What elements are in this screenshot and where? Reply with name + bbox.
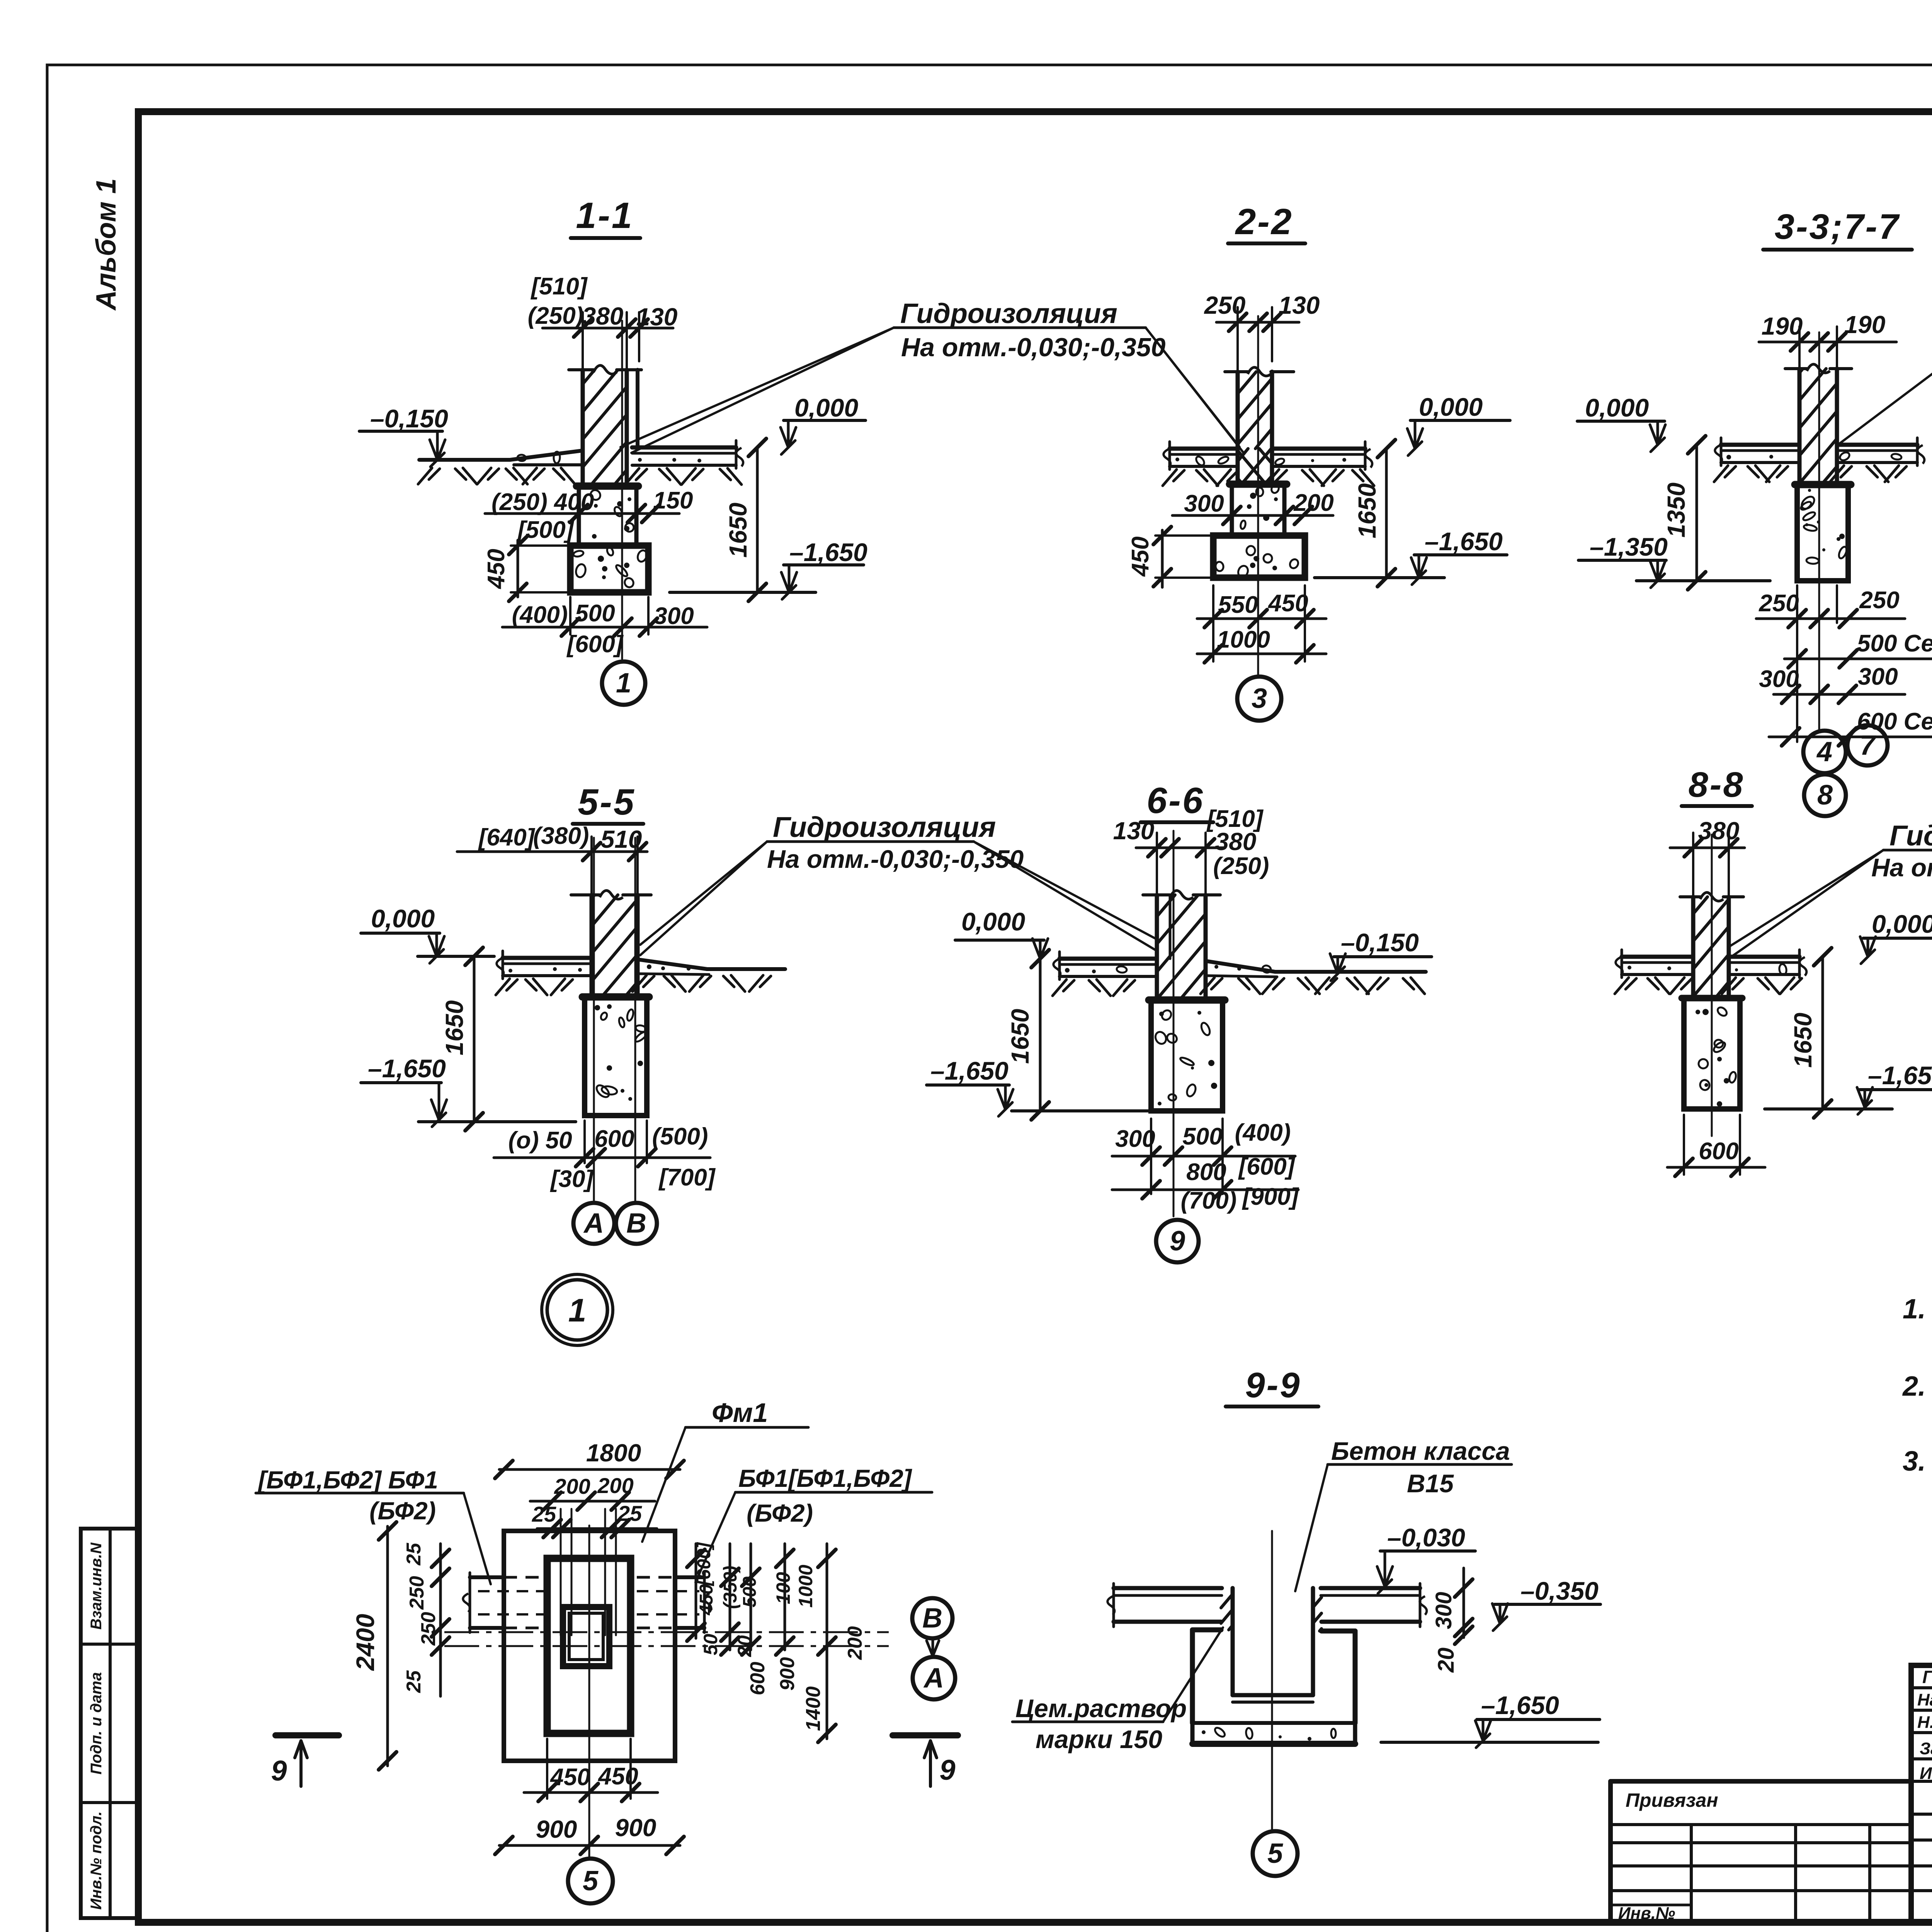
section 9-9 dim 300 vertical <box>1463 1568 1465 1638</box>
section 8-8 floor slab left <box>1622 955 1693 959</box>
section 1-1 foundation upper block <box>577 483 638 490</box>
section 5-5 outdoor ground right <box>638 959 707 969</box>
plan horizontal centerlines <box>444 1631 889 1633</box>
svg-text:[БФ1,БФ2] БФ1: [БФ1,БФ2] БФ1 <box>257 1466 438 1494</box>
svg-text:300: 300 <box>1184 490 1224 517</box>
section 3-3 wall axis <box>1818 332 1820 730</box>
svg-text:–1,650: –1,650 <box>368 1054 446 1083</box>
plan bottom dims 450 450 <box>546 1739 548 1799</box>
svg-text:[600]: [600] <box>1238 1153 1296 1180</box>
svg-text:(380): (380) <box>533 823 589 849</box>
section 8-8 brick wall <box>1680 895 1700 898</box>
svg-text:–0,150: –0,150 <box>1341 928 1419 957</box>
label gidroizolyaciya B leaders <box>1838 297 1932 444</box>
svg-text:450: 450 <box>696 1584 717 1616</box>
svg-text:(БФ2): (БФ2) <box>747 1499 813 1527</box>
svg-text:9-9: 9-9 <box>1245 1366 1301 1405</box>
svg-text:БФ1[БФ1,БФ2]: БФ1[БФ1,БФ2] <box>738 1464 913 1492</box>
svg-text:25: 25 <box>403 1670 425 1693</box>
section 1-1 dim 1650 vertical <box>756 447 759 592</box>
section 2-2 floor slab left <box>1170 447 1238 451</box>
svg-text:8-8: 8-8 <box>1689 765 1745 804</box>
svg-text:Привязан: Привязан <box>1626 1789 1718 1811</box>
svg-text:Гидроизоляция: Гидроизоляция <box>900 298 1117 329</box>
section 2-2 foundation upper block <box>1230 481 1287 488</box>
section 5-5 node circle 1 <box>542 1274 613 1345</box>
svg-text:Альбом 1: Альбом 1 <box>91 178 122 311</box>
section 8-8 wall axis <box>1711 835 1713 1136</box>
section 6-6 bottom dims <box>1150 1119 1152 1194</box>
section 9-9 axis <box>1271 1531 1273 1831</box>
svg-text:5: 5 <box>583 1866 599 1896</box>
plan dims 200 200 <box>530 1500 655 1503</box>
svg-text:250: 250 <box>1204 291 1246 319</box>
section 1-1 top dimension line <box>543 327 673 330</box>
plan axis circles B A right <box>912 1598 952 1638</box>
svg-text:Н.контр.: Н.контр. <box>1917 1713 1932 1732</box>
svg-text:Инв.№: Инв.№ <box>1618 1904 1675 1923</box>
section 2-2 wall axis <box>1257 316 1259 674</box>
section 8-8 dim 1650 vertical <box>1821 957 1824 1109</box>
plan vertical centerline <box>588 1526 590 1761</box>
section 1-1 bottom dims <box>569 597 571 634</box>
section 3-3 dims below <box>1796 585 1798 742</box>
section 1-1 floor slab right <box>632 446 736 450</box>
svg-text:20: 20 <box>734 1635 755 1657</box>
svg-text:В: В <box>626 1208 646 1239</box>
svg-text:1650: 1650 <box>1006 1009 1034 1064</box>
svg-text:[510]: [510] <box>531 273 588 300</box>
svg-text:600: 600 <box>594 1126 634 1152</box>
section 9-9 floor slab left <box>1114 1586 1222 1590</box>
svg-text:380: 380 <box>582 302 624 330</box>
svg-text:0,000: 0,000 <box>1585 393 1649 422</box>
svg-text:Зав.гр.: Зав.гр. <box>1920 1739 1932 1758</box>
svg-text:25: 25 <box>532 1502 556 1526</box>
svg-text:2. Размеры и наименования в кр: 2. Размеры и наименования в круглых скоб… <box>1902 1371 1932 1402</box>
svg-text:–1,650: –1,650 <box>1481 1691 1559 1719</box>
svg-text:250: 250 <box>1759 590 1799 617</box>
svg-text:9: 9 <box>271 1755 287 1787</box>
section 2-2 dim 450 vertical <box>1161 530 1164 587</box>
svg-text:–1,650: –1,650 <box>1425 527 1503 556</box>
svg-text:[900]: [900] <box>1242 1184 1299 1210</box>
section 1-1 outdoor ground left <box>419 458 510 462</box>
svg-text:300: 300 <box>1431 1592 1456 1629</box>
plan pedestal Fm1 outline <box>547 1558 631 1733</box>
svg-text:250: 250 <box>406 1576 428 1610</box>
svg-text:130: 130 <box>1113 817 1155 845</box>
svg-text:0,000: 0,000 <box>961 907 1025 936</box>
svg-text:380: 380 <box>1698 817 1740 845</box>
svg-text:300: 300 <box>1115 1126 1155 1152</box>
svg-text:0,000: 0,000 <box>371 904 435 933</box>
svg-text:450: 450 <box>549 1764 590 1791</box>
svg-text:марки 150: марки 150 <box>1036 1725 1162 1753</box>
svg-text:–1,650: –1,650 <box>930 1056 1009 1085</box>
svg-text:300: 300 <box>1858 663 1898 690</box>
svg-text:Гидроизоляция: Гидроизоляция <box>1889 820 1932 852</box>
section 8-8 foundation <box>1682 995 1742 1002</box>
svg-text:900: 900 <box>536 1815 577 1843</box>
svg-text:0,000: 0,000 <box>1419 393 1483 421</box>
section 5-5 foundation <box>582 993 649 1001</box>
section 1-1 foundation lower block <box>570 546 648 592</box>
svg-text:250: 250 <box>417 1612 440 1646</box>
svg-text:А: А <box>583 1208 604 1239</box>
section 9-9 mortar seams <box>1221 1595 1231 1608</box>
svg-text:1650: 1650 <box>440 1000 468 1055</box>
svg-text:9: 9 <box>939 1754 955 1786</box>
svg-text:(700): (700) <box>1181 1187 1237 1214</box>
section 3-3 dim 1350 vertical <box>1696 445 1698 581</box>
section 9-9 cup base strip <box>1192 1721 1355 1725</box>
svg-text:[700]: [700] <box>658 1164 716 1191</box>
svg-text:9: 9 <box>1170 1226 1185 1257</box>
section 3-3 floor slab left <box>1721 443 1799 447</box>
svg-text:450: 450 <box>1267 590 1308 617</box>
svg-text:500: 500 <box>740 1577 760 1607</box>
svg-text:190: 190 <box>1762 312 1803 340</box>
svg-text:(250): (250) <box>1213 853 1269 879</box>
svg-text:1000: 1000 <box>1217 626 1270 653</box>
section 5-5 floor slab left indoor <box>503 956 592 960</box>
svg-text:1650: 1650 <box>1353 483 1381 538</box>
svg-text:200: 200 <box>1293 490 1333 516</box>
svg-text:200: 200 <box>844 1626 866 1660</box>
svg-text:[30]: [30] <box>550 1166 594 1192</box>
section 6-6 top dimension <box>1136 847 1225 849</box>
section 6-6 wall axis <box>1173 831 1175 1216</box>
section 1-1 brick wall <box>569 368 594 371</box>
svg-text:Инв.№ подл.: Инв.№ подл. <box>88 1811 105 1910</box>
section 5-5 dim 1650 vertical <box>473 956 476 1122</box>
svg-text:В: В <box>922 1603 942 1634</box>
section 6-6 axis circle 9 <box>1156 1220 1199 1262</box>
svg-text:[600]: [600] <box>566 631 624 658</box>
section 2-2 bottom dims <box>1212 585 1214 662</box>
svg-text:6-6: 6-6 <box>1146 780 1204 821</box>
plan section marker 9 right <box>893 1732 958 1738</box>
svg-text:200: 200 <box>554 1474 590 1498</box>
plan section marker 9 left <box>276 1732 339 1738</box>
svg-text:–1,650: –1,650 <box>1868 1061 1932 1090</box>
section 1-1 dim 450 vertical <box>517 540 519 597</box>
plan dim 1800 top <box>499 1468 680 1471</box>
svg-text:–0,030: –0,030 <box>1387 1523 1465 1552</box>
svg-text:(о) 50: (о) 50 <box>508 1127 572 1154</box>
svg-text:2400: 2400 <box>351 1614 379 1671</box>
section 9-9 floor slab right <box>1321 1586 1420 1590</box>
svg-text:Гидроизоляция: Гидроизоляция <box>773 811 996 843</box>
svg-text:–0,150: –0,150 <box>370 404 448 433</box>
svg-text:(500): (500) <box>652 1123 708 1150</box>
svg-text:600: 600 <box>1699 1138 1738 1165</box>
svg-text:На отм.-0,030;-0,350: На отм.-0,030;-0,350 <box>1871 853 1932 882</box>
plan bottom dims 900 900 <box>499 1844 680 1847</box>
svg-text:(350): (350) <box>720 1566 741 1609</box>
svg-text:5-5: 5-5 <box>578 782 635 823</box>
svg-text:3. Кирпичные стены, соприкасаю: 3. Кирпичные стены, соприкасающиеся с гр… <box>1903 1446 1932 1477</box>
section 8-8 floor slab right <box>1729 955 1799 959</box>
section 5-5 bottom dims <box>583 1121 586 1163</box>
svg-text:20: 20 <box>1434 1648 1459 1673</box>
section 3-3 top dimension <box>1759 341 1896 344</box>
plan right foundation beam BF1 <box>675 1575 704 1579</box>
svg-text:Бетон класса: Бетон класса <box>1331 1437 1510 1465</box>
svg-text:800: 800 <box>1186 1159 1226 1185</box>
svg-text:130: 130 <box>636 303 678 331</box>
svg-text:510: 510 <box>601 825 642 853</box>
svg-text:1350: 1350 <box>1662 483 1690 537</box>
section 8-8 bottom dim 600 <box>1683 1115 1685 1175</box>
svg-text:В15: В15 <box>1407 1469 1454 1498</box>
svg-text:Цем.раствор: Цем.раствор <box>1015 1694 1187 1723</box>
section 2-2 dim 1650 vertical <box>1385 449 1388 578</box>
svg-text:1000: 1000 <box>795 1565 816 1607</box>
svg-text:(250) 400: (250) 400 <box>492 489 594 515</box>
svg-text:380: 380 <box>1215 828 1257 855</box>
svg-text:–1,650: –1,650 <box>789 538 867 566</box>
section 3-3 brick wall <box>1785 367 1807 370</box>
svg-text:Инж.: Инж. <box>1920 1764 1932 1783</box>
section 5-5 top dimension <box>457 850 647 853</box>
svg-text:200: 200 <box>597 1473 633 1498</box>
title block signature table <box>1911 1665 1932 1922</box>
section 3-3 axis circles 4 7 8 <box>1803 731 1846 773</box>
svg-text:600: 600 <box>747 1662 769 1696</box>
section 2-2 foundation lower block <box>1213 536 1305 578</box>
label gidroizolyaciya D leaders <box>1730 850 1883 946</box>
svg-text:2-2: 2-2 <box>1235 201 1293 242</box>
svg-text:300: 300 <box>654 603 694 629</box>
label gidroizolyaciya C leaders <box>640 842 767 945</box>
svg-text:(250): (250) <box>528 303 584 329</box>
plan dims 25 25 <box>537 1527 657 1530</box>
section 5-5 axes <box>593 838 595 1201</box>
section 2-2 dim 300-200 <box>1172 514 1333 517</box>
left margin strip table <box>81 1529 138 1918</box>
section 1-1 wall axis <box>621 321 623 659</box>
section 1-1 foundation beam edge <box>636 370 639 447</box>
svg-text:Взам.инв.N: Взам.инв.N <box>88 1542 105 1629</box>
section 6-6 brick wall <box>1143 893 1170 896</box>
plan big square outline <box>504 1531 675 1761</box>
svg-text:25: 25 <box>403 1543 425 1566</box>
svg-text:50: 50 <box>700 1634 721 1655</box>
svg-text:1650: 1650 <box>1789 1013 1817 1068</box>
section 5-5 axis circles A B <box>573 1203 614 1244</box>
svg-text:25: 25 <box>617 1501 642 1526</box>
svg-text:ГИП: ГИП <box>1922 1667 1932 1687</box>
section 6-6 outdoor ground right <box>1206 961 1275 972</box>
svg-text:[640]: [640] <box>478 824 536 851</box>
title block left attachment table <box>1611 1779 1911 1784</box>
section 2-2 brick wall <box>1225 370 1248 373</box>
svg-text:(400): (400) <box>1235 1119 1291 1146</box>
svg-text:На отм.-0,030;-0,350: На отм.-0,030;-0,350 <box>901 333 1166 362</box>
svg-text:500 Сеч.3-3: 500 Сеч.3-3 <box>1857 630 1932 657</box>
section 3-3 foundation pillar <box>1795 481 1851 488</box>
svg-text:0,000: 0,000 <box>1872 910 1932 938</box>
section 6-6 floor slab left indoor <box>1060 957 1157 961</box>
svg-text:150: 150 <box>653 487 693 514</box>
svg-text:550: 550 <box>1218 592 1258 618</box>
svg-text:3-3;7-7: 3-3;7-7 <box>1775 207 1900 247</box>
svg-text:–0,350: –0,350 <box>1520 1577 1599 1605</box>
plan left foundation beam BF1 <box>470 1575 504 1579</box>
plan right dim lines cluster <box>695 1544 697 1638</box>
svg-text:300: 300 <box>1759 666 1799 692</box>
svg-text:450: 450 <box>597 1763 638 1790</box>
svg-text:1. Устройство опор под фундаме: 1. Устройство опор под фундаментные балк… <box>1903 1294 1932 1325</box>
svg-text:1: 1 <box>568 1292 587 1328</box>
svg-text:1800: 1800 <box>586 1439 641 1467</box>
label gidroizolyaciya A leaders <box>621 328 894 447</box>
svg-text:900: 900 <box>776 1657 799 1691</box>
section 9-9 foundation cup <box>1190 1630 1195 1723</box>
section 3-3 floor slab right <box>1837 443 1917 447</box>
section 6-6 dim 1650 vertical <box>1039 959 1042 1111</box>
svg-text:8: 8 <box>1817 780 1833 811</box>
svg-text:3: 3 <box>1252 683 1267 714</box>
section 2-2 top dimension <box>1216 321 1299 324</box>
section 1-1 axis circle 1 <box>602 662 645 705</box>
svg-text:Фм1: Фм1 <box>712 1398 768 1428</box>
svg-text:Нач.отд.: Нач.отд. <box>1917 1690 1932 1709</box>
svg-text:1650: 1650 <box>724 503 752 558</box>
svg-text:1-1: 1-1 <box>576 195 633 236</box>
svg-text:190: 190 <box>1844 311 1886 338</box>
svg-text:450: 450 <box>483 549 510 589</box>
plan small dims left <box>439 1544 442 1696</box>
plan dim 2400 left <box>386 1526 389 1766</box>
svg-text:250: 250 <box>1859 587 1899 614</box>
section 1-1 dim 400-150 <box>485 512 679 515</box>
svg-text:–1,350: –1,350 <box>1590 532 1668 561</box>
section 6-6 foundation <box>1149 997 1225 1004</box>
svg-text:Подп. и дата: Подп. и дата <box>88 1672 105 1775</box>
section 5-5 brick wall <box>571 893 600 896</box>
svg-text:0,000: 0,000 <box>794 393 858 422</box>
section 8-8 top dimension <box>1670 847 1745 849</box>
svg-text:500: 500 <box>575 600 615 627</box>
section 9-9 axis circle 5 <box>1253 1831 1298 1876</box>
section 2-2 axis circle 3 <box>1237 677 1281 721</box>
svg-text:(400): (400) <box>512 602 568 628</box>
plan column socket <box>563 1607 609 1666</box>
svg-text:5: 5 <box>1267 1838 1283 1869</box>
svg-text:1: 1 <box>616 668 631 699</box>
plan anchor bolt lines <box>560 1509 562 1635</box>
svg-text:7: 7 <box>1860 730 1876 761</box>
svg-text:450: 450 <box>1127 536 1154 577</box>
svg-text:500: 500 <box>1182 1123 1222 1150</box>
section 2-2 floor slab right <box>1272 447 1365 451</box>
svg-text:4: 4 <box>1816 736 1832 767</box>
svg-text:(БФ2): (БФ2) <box>369 1497 436 1525</box>
svg-text:А: А <box>923 1663 944 1694</box>
svg-text:1400: 1400 <box>802 1686 825 1731</box>
svg-text:900: 900 <box>615 1814 656 1842</box>
svg-text:100: 100 <box>772 1572 794 1604</box>
svg-text:130: 130 <box>1279 291 1320 319</box>
plan axis circle 5 <box>588 1761 590 1858</box>
